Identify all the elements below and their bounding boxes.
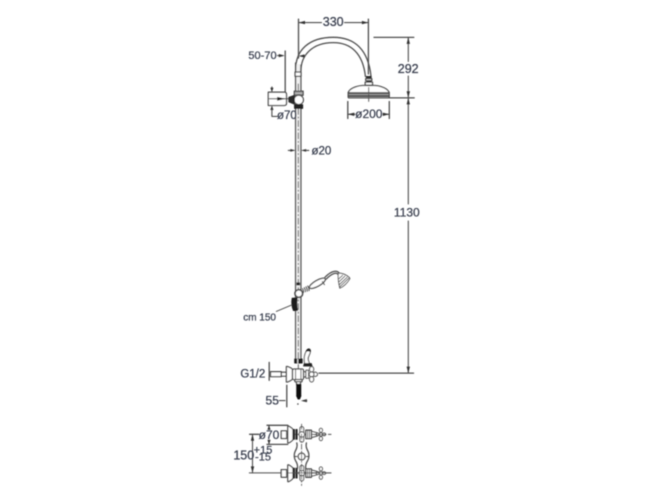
dimension 292 xyxy=(374,37,419,97)
svg-text:292: 292 xyxy=(398,62,419,76)
valve top nut xyxy=(295,359,302,363)
dimension 330 xyxy=(299,15,369,74)
svg-text:150: 150 xyxy=(233,448,254,462)
svg-text:ø70: ø70 xyxy=(259,428,280,442)
svg-text:ø200: ø200 xyxy=(355,107,383,121)
cross handle side view xyxy=(299,466,304,481)
valve wall flange xyxy=(286,367,292,383)
valve outlet xyxy=(295,380,302,399)
diverter lever xyxy=(304,349,313,366)
dimension d70 upper xyxy=(270,87,297,122)
valve body xyxy=(293,369,304,380)
riser union nut xyxy=(294,91,303,95)
collar bands xyxy=(306,430,312,438)
wall plane tick xyxy=(268,362,270,380)
dimension 150 xyxy=(233,434,331,473)
valve extension line xyxy=(319,372,414,374)
svg-text:1130: 1130 xyxy=(394,206,420,220)
hand shower neck xyxy=(325,271,339,279)
wall union escutcheon xyxy=(268,92,286,105)
escutcheon bell xyxy=(288,426,293,443)
svg-text:G1/2: G1/2 xyxy=(240,369,265,381)
dimension d200 xyxy=(348,102,390,122)
hand shower ferrule xyxy=(303,286,310,293)
label cm 150 xyxy=(243,305,292,323)
hand shower bracket xyxy=(292,298,297,310)
svg-text:55: 55 xyxy=(266,394,280,408)
nut bands xyxy=(293,468,297,478)
dimension 50-70 xyxy=(248,50,304,92)
collar bands xyxy=(306,469,312,477)
svg-text:ø20: ø20 xyxy=(312,146,332,158)
rosette handle xyxy=(316,428,326,440)
dome centerline xyxy=(368,88,370,102)
supply stub box xyxy=(281,431,286,439)
cross handle side view xyxy=(299,427,304,442)
gooseneck arc xyxy=(296,37,371,76)
svg-text:ø70: ø70 xyxy=(277,110,297,122)
taper xyxy=(311,470,317,476)
riser lower nut xyxy=(295,105,303,108)
riser pipe xyxy=(296,64,300,359)
hand shower slider clamp xyxy=(297,283,300,285)
hand shower slider ring xyxy=(295,290,303,298)
row2 centerline over xyxy=(287,472,331,474)
escutcheon bell xyxy=(288,465,293,482)
shower head dome xyxy=(348,86,389,98)
supply stub box xyxy=(281,470,286,478)
arc end connector xyxy=(365,76,373,86)
dimension d70 lower xyxy=(259,425,288,444)
valve cross handle xyxy=(309,367,317,382)
hand shower grip collar xyxy=(322,282,324,285)
valve right stem xyxy=(304,371,306,377)
valve stem collar xyxy=(306,370,309,378)
rosette handle xyxy=(316,467,326,479)
supply arrow into union xyxy=(270,97,296,101)
riser union ball xyxy=(294,95,303,104)
svg-text:330: 330 xyxy=(323,15,344,29)
dimension d20 xyxy=(288,146,331,158)
detail center body xyxy=(294,424,309,485)
head bottom extension line xyxy=(389,97,414,99)
taper xyxy=(311,431,317,437)
detail top valve row xyxy=(281,426,331,443)
nut bands xyxy=(293,429,297,439)
row centerline xyxy=(281,433,326,435)
union side cone xyxy=(289,95,295,104)
svg-text:50-70: 50-70 xyxy=(248,50,276,62)
svg-text:-15: -15 xyxy=(255,452,271,464)
svg-text:cm 150: cm 150 xyxy=(243,312,276,323)
riser top collar xyxy=(295,72,301,76)
hand shower head xyxy=(338,273,350,288)
riser centerline xyxy=(297,84,299,399)
detail vertical centerline xyxy=(301,424,303,485)
valve inlet pipe xyxy=(271,372,287,377)
detail bottom valve row xyxy=(281,465,331,482)
dimension 1130 xyxy=(394,98,420,373)
center boss circle xyxy=(298,453,305,460)
dimension 55 xyxy=(266,385,307,407)
hand shower grip xyxy=(308,276,326,290)
centerline dash xyxy=(314,433,326,435)
